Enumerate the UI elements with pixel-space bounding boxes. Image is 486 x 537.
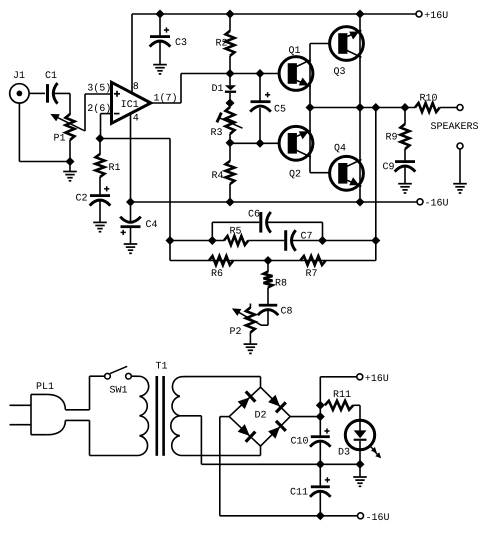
- wire to SW1: [90, 375, 105, 377]
- node output feedback: [372, 104, 380, 112]
- transistor Q4: [330, 144, 364, 190]
- wire plug cords: [65, 376, 89, 455]
- wire IC1 -input: [101, 114, 112, 139]
- wire +16V bottom: [320, 376, 357, 378]
- wire C7 right: [291, 240, 376, 242]
- transformer T1 secondary: [171, 377, 186, 456]
- wire row R5 left: [170, 240, 224, 242]
- wire -16V row bottom: [220, 515, 357, 517]
- resistor R6: [209, 256, 233, 276]
- transformer T1 core: [156, 362, 168, 456]
- ground input: [63, 172, 77, 181]
- wire P1 bottom: [69, 140, 71, 162]
- node D1/R3 junction: [226, 99, 234, 107]
- transistor Q2: [279, 126, 313, 178]
- node feedback right: [372, 237, 380, 245]
- capacitor C11: [291, 477, 331, 497]
- wire R1 to C2: [99, 177, 101, 194]
- resistor R10: [415, 94, 440, 112]
- wire row R6/R7: [170, 260, 376, 262]
- plug PL1: [10, 382, 66, 434]
- node Q4 rail: [356, 198, 364, 206]
- capacitor C9: [383, 160, 415, 171]
- wire C2 to ground: [99, 200, 101, 222]
- node C5 bottom: [256, 140, 264, 148]
- capacitor C10: [291, 428, 331, 446]
- capacitor C5: [250, 92, 285, 112]
- transformer T1 primary: [90, 376, 149, 455]
- node R4 rail: [226, 198, 234, 206]
- node R11 junction: [317, 402, 325, 410]
- node 0V C10: [317, 461, 325, 469]
- wire J1 ground run: [19, 103, 70, 161]
- potentiometer P2: [230, 304, 255, 335]
- ground P2: [244, 344, 258, 353]
- transistor Q3: [330, 27, 364, 76]
- ground D3: [353, 477, 367, 486]
- node output mid: [356, 104, 364, 112]
- resistor R9: [386, 108, 409, 161]
- label pin 1(7): [154, 93, 176, 102]
- diode D1: [212, 84, 236, 92]
- wire C5 top lead: [259, 74, 261, 101]
- wire D1 to R3: [229, 93, 231, 108]
- wire node row upper: [181, 73, 280, 75]
- wire R10 to terminal: [440, 107, 457, 109]
- trimmer R3: [211, 107, 242, 135]
- label SPEAKERS: [431, 122, 478, 129]
- terminal -16V (top): [417, 199, 448, 206]
- potentiometer P1: [54, 114, 74, 141]
- label pin 4: [133, 114, 138, 121]
- node output left: [306, 104, 314, 112]
- wire P2 to ground: [249, 333, 251, 345]
- wire D1 top lead: [229, 74, 231, 86]
- node D2+ junction: [317, 413, 325, 421]
- capacitor C4: [120, 202, 157, 235]
- wire speaker - to ground: [459, 149, 461, 184]
- resistor R11: [325, 390, 353, 409]
- wire D2 right to C10: [290, 416, 320, 418]
- node R2/+16V: [226, 10, 234, 18]
- wire R3 to R4: [229, 134, 231, 161]
- capacitor C2: [76, 186, 110, 205]
- capacitor C8: [258, 304, 292, 315]
- ground C4: [124, 244, 138, 253]
- wire 0V row right end: [320, 463, 360, 465]
- label pin 8: [133, 82, 138, 89]
- wire C8 to P2 wiper: [261, 310, 268, 326]
- wire +16V top rail: [132, 13, 416, 15]
- wire R8 top lead: [267, 261, 269, 273]
- wire D2 left to -16V row: [220, 417, 229, 516]
- wire C9 to ground: [404, 166, 406, 184]
- wire secondary top to D2: [185, 377, 261, 388]
- wire C5 bottom lead: [259, 108, 261, 143]
- resistor R4: [212, 161, 234, 184]
- wire D3 ground stub: [359, 464, 361, 477]
- connector J1: [10, 71, 29, 103]
- wire R2 bottom lead: [229, 56, 231, 74]
- node feedback left: [166, 237, 174, 245]
- node D3 ground: [356, 461, 364, 469]
- wire IC1 output: [151, 74, 182, 104]
- wire output vertical: [359, 14, 361, 202]
- wire center tap: [180, 416, 320, 465]
- label pin 3(5): [88, 83, 110, 92]
- wire C4 to ground: [130, 227, 132, 244]
- ground C3: [153, 65, 167, 74]
- wire R8 to C8: [267, 288, 269, 305]
- wire R5 to C7: [248, 240, 284, 242]
- capacitor C7: [284, 230, 312, 251]
- wire -16V rail: [131, 201, 417, 203]
- wire C10 bottom: [319, 441, 321, 464]
- resistor R8: [264, 272, 287, 288]
- node R8 top: [264, 257, 272, 265]
- node R3 bottom: [226, 139, 234, 147]
- terminal +16V (bottom): [357, 374, 388, 381]
- node C6 left: [209, 237, 217, 245]
- wire C3 top lead: [159, 14, 161, 36]
- terminal -16V (bottom): [358, 513, 389, 520]
- switch SW1: [105, 366, 132, 392]
- wire IC1 pin 8 to +16V rail: [131, 14, 133, 92]
- wire C3 to ground: [159, 41, 161, 65]
- wire J1 to C1: [29, 92, 45, 94]
- resistor R7: [300, 256, 325, 276]
- wire C11 bottom: [319, 491, 321, 516]
- wire C6 right branch: [266, 222, 323, 240]
- wire R11 to D3: [353, 405, 360, 421]
- capacitor C1: [46, 71, 58, 103]
- terminal speaker -: [457, 143, 463, 149]
- wiper P1: [50, 94, 85, 131]
- node IC1 -input junction: [96, 135, 104, 143]
- terminal +16V (top): [416, 11, 448, 18]
- resistor R1: [96, 154, 121, 177]
- terminal speaker +: [457, 105, 463, 111]
- node C11 -16V: [317, 512, 325, 520]
- node D1 top: [226, 70, 234, 78]
- ground C2: [93, 222, 107, 231]
- wire Q2 collector to Q4: [310, 108, 330, 173]
- wire output row: [310, 107, 415, 109]
- wire feedback from -input: [100, 139, 170, 261]
- led D3: [339, 420, 381, 464]
- node C5 top: [256, 70, 264, 78]
- resistor R5: [224, 227, 248, 245]
- node P1/J1 ground: [66, 158, 74, 166]
- wire R2 top lead: [229, 14, 231, 31]
- node output R9: [401, 104, 409, 112]
- label pin 2(6): [88, 104, 110, 113]
- wire C6 left branch: [212, 222, 259, 240]
- wire secondary bottom to D2: [185, 446, 261, 456]
- resistor R2: [216, 31, 234, 56]
- bridge rectifier D2: [229, 387, 290, 446]
- wire feedback vertical: [375, 108, 377, 261]
- wire C11 top: [319, 464, 321, 485]
- capacitor C6: [249, 210, 271, 233]
- wire C10 column top: [319, 377, 321, 436]
- wire R1 top lead: [99, 139, 101, 155]
- ground C9: [398, 184, 412, 193]
- wire SW1 to T1: [131, 375, 134, 377]
- op-amp IC1: [112, 82, 151, 123]
- node Q3 top: [356, 10, 364, 18]
- ground speaker: [453, 184, 467, 193]
- node C6/C7 junction: [319, 237, 327, 245]
- wire IC1 pin 4 down: [130, 113, 132, 202]
- wire C1 to P1: [53, 93, 71, 114]
- capacitor C3: [150, 27, 187, 46]
- wire to ground: [69, 162, 71, 172]
- wire driver vertical: [309, 44, 311, 108]
- transistor Q1: [279, 46, 313, 90]
- wiper P2: [232, 308, 261, 325]
- node C3/+16V: [156, 10, 164, 18]
- wire R4 bottom lead: [229, 184, 231, 202]
- wire node row lower: [230, 142, 280, 144]
- node C4 rail: [127, 198, 135, 206]
- wire Q3 base: [310, 43, 330, 45]
- wire IC1 +input: [85, 93, 112, 95]
